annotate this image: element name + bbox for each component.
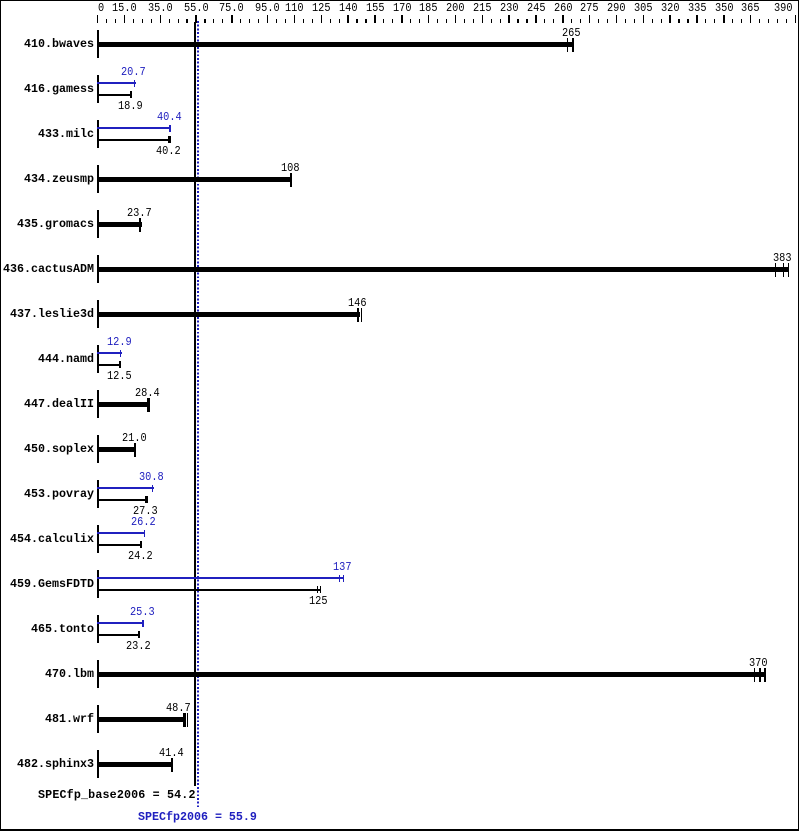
row 450.soplex [24, 444, 94, 456]
SPECfp_base2006 = 54.2 [38, 790, 196, 802]
x axis major ticks [97, 15, 99, 23]
peak mean line 55.9 (dotted blue) [197, 21, 199, 807]
SPECfp2006 = 55.9 [138, 812, 257, 824]
row 435.gromacs [17, 219, 94, 231]
x axis tick labels [98, 2, 104, 14]
row 453.povray [24, 489, 94, 501]
row 434.zeusmp [24, 174, 94, 186]
row 444.namd [38, 354, 94, 366]
row 482.sphinx3 [17, 759, 94, 771]
row 465.tonto [31, 624, 94, 636]
row 436.cactusADM [3, 264, 94, 276]
row 437.leslie3d [10, 309, 94, 321]
row 416.gamess [24, 84, 94, 96]
base mean line 54.2 (solid black) [194, 22, 196, 786]
row 459.GemsFDTD [10, 579, 94, 591]
x axis minor ticks [106, 19, 107, 23]
row 447.dealII [24, 399, 94, 411]
row 433.milc [38, 129, 94, 141]
row 454.calculix [10, 534, 94, 546]
row 481.wrf [45, 714, 94, 726]
row 410.bwaves [24, 39, 94, 51]
row 470.lbm [45, 669, 94, 681]
